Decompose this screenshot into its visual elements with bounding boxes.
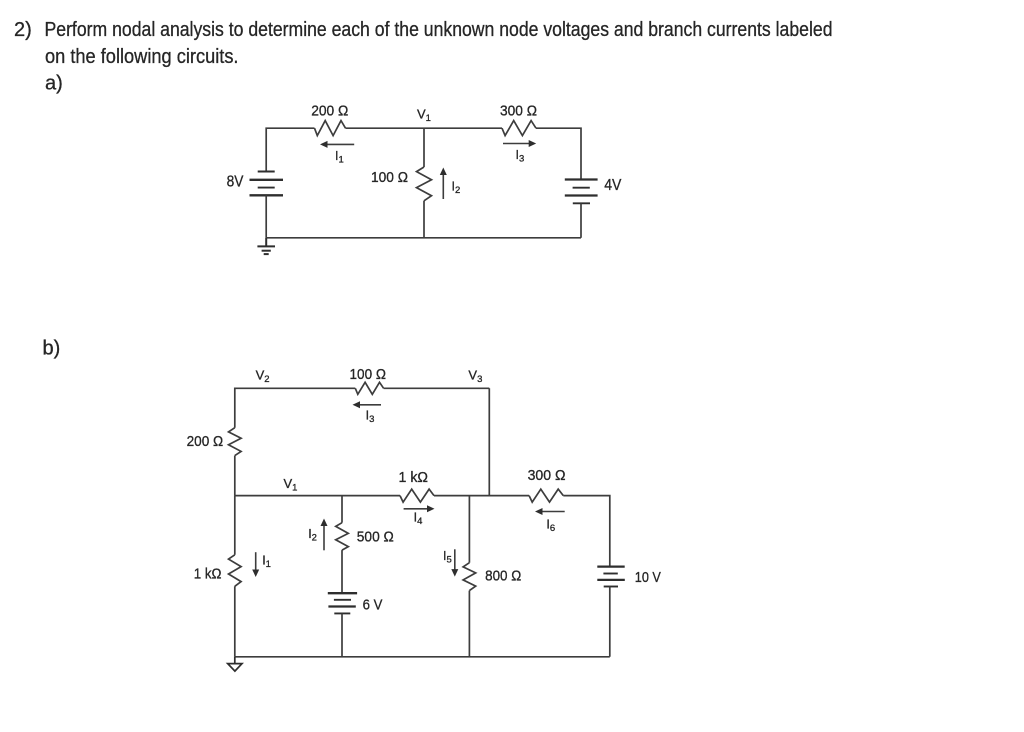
current label I3 (b) bbox=[366, 409, 375, 426]
current label I5 (b) bbox=[443, 549, 452, 566]
svg-text:V2: V2 bbox=[256, 368, 270, 386]
svg-text:V3: V3 bbox=[468, 368, 482, 386]
battery 4V (a) bbox=[565, 180, 598, 204]
svg-text:I2: I2 bbox=[452, 179, 461, 196]
node label V3 bbox=[468, 368, 482, 386]
current label I3 (a) bbox=[516, 148, 525, 165]
current label I2 (a) bbox=[452, 179, 461, 196]
current arrow I3 (b) bbox=[353, 401, 382, 408]
svg-text:200 Ω: 200 Ω bbox=[311, 103, 348, 120]
wire: a top-left segment bbox=[266, 128, 314, 171]
svg-text:200 Ω: 200 Ω bbox=[187, 433, 224, 450]
svg-text:V1: V1 bbox=[284, 476, 298, 494]
wire: 6V battery to bottom rail bbox=[341, 613, 343, 656]
current label I1 (a) bbox=[335, 149, 344, 166]
current arrow I6 (b) bbox=[535, 508, 565, 515]
resistor 500ohm vertical bbox=[336, 523, 349, 550]
current arrow I1 (b) bbox=[252, 552, 259, 577]
svg-text:100 Ω: 100 Ω bbox=[371, 169, 408, 186]
wire: b left lower segment bbox=[234, 496, 236, 555]
label 800 ohm (b) bbox=[485, 568, 521, 585]
svg-text:I3: I3 bbox=[366, 409, 375, 426]
current label I4 (b) bbox=[414, 511, 423, 528]
wire: b bottom rail bbox=[235, 656, 610, 658]
svg-text:I2: I2 bbox=[308, 527, 317, 544]
battery 6V bbox=[328, 593, 357, 613]
svg-text:300 Ω: 300 Ω bbox=[528, 467, 566, 484]
wire: 800ohm branch upper bbox=[468, 496, 470, 563]
svg-text:500 Ω: 500 Ω bbox=[357, 529, 394, 546]
wire: 10V battery to bottom rail bbox=[609, 587, 611, 657]
wire: a top-middle segment bbox=[346, 127, 503, 129]
svg-text:on the following circuits.: on the following circuits. bbox=[45, 46, 239, 68]
current arrow I5 (b) bbox=[451, 549, 458, 576]
wire: V3 vertical bbox=[488, 388, 490, 495]
label 300 ohm (a) bbox=[500, 103, 537, 120]
svg-text:I4: I4 bbox=[414, 511, 423, 528]
svg-text:6 V: 6 V bbox=[363, 597, 383, 614]
svg-text:10 V: 10 V bbox=[635, 569, 661, 586]
label 8V bbox=[227, 173, 244, 190]
svg-text:100 Ω: 100 Ω bbox=[350, 366, 387, 383]
label 200 ohm (a) bbox=[311, 103, 348, 120]
wire: 100ohm bottom to bottom rail bbox=[423, 201, 425, 238]
svg-text:4V: 4V bbox=[604, 177, 622, 194]
svg-text:8V: 8V bbox=[227, 173, 244, 190]
resistor 200ohm (b) vertical bbox=[229, 428, 242, 456]
svg-text:I5: I5 bbox=[443, 549, 452, 566]
node label V1 (a) bbox=[417, 106, 431, 124]
svg-text:800 Ω: 800 Ω bbox=[485, 568, 521, 585]
wire: b left to bottom rail bbox=[234, 586, 236, 657]
label 500 ohm (b) bbox=[357, 529, 394, 546]
wire: b middle rail left bbox=[235, 495, 400, 497]
wire: 500ohm to 6V battery bbox=[341, 550, 343, 593]
label 6 V bbox=[363, 597, 383, 614]
label a) bbox=[45, 73, 63, 95]
resistor 800ohm vertical bbox=[463, 563, 476, 591]
problem statement text bbox=[14, 19, 833, 68]
label 300 ohm (b) bbox=[528, 467, 566, 484]
resistor 300ohm (b) bbox=[529, 489, 563, 502]
svg-text:a): a) bbox=[45, 73, 63, 95]
svg-text:I6: I6 bbox=[546, 518, 555, 535]
svg-text:I1: I1 bbox=[262, 554, 271, 571]
svg-text:300 Ω: 300 Ω bbox=[500, 103, 537, 120]
label 1 kohm (b left) bbox=[194, 566, 222, 583]
wire: b top-left segment bbox=[235, 388, 355, 427]
wire: a top-right segment bbox=[536, 128, 581, 179]
label 1 kohm (b middle) bbox=[399, 469, 429, 486]
ground (a) bbox=[257, 238, 275, 254]
label 100 ohm (a) bbox=[371, 169, 408, 186]
svg-text:2): 2) bbox=[14, 19, 32, 41]
current label I2 (b) bbox=[308, 527, 317, 544]
current label I6 (b) bbox=[546, 518, 555, 535]
wire: b left mid segment bbox=[234, 456, 236, 496]
wire: b middle rail to right vertical bbox=[563, 496, 610, 567]
svg-text:I3: I3 bbox=[516, 148, 525, 165]
wire: a right-bottom segment bbox=[580, 203, 582, 238]
resistor 1kohm (b middle) bbox=[400, 489, 434, 502]
label 100 ohm (b) bbox=[350, 366, 387, 383]
svg-text:1 kΩ: 1 kΩ bbox=[399, 469, 429, 486]
current arrow I4 (b) bbox=[404, 505, 435, 512]
label 200 ohm (b) bbox=[187, 433, 224, 450]
wire: 500ohm branch upper bbox=[341, 496, 343, 523]
resistor 300ohm (a) bbox=[502, 121, 536, 136]
label 10 V bbox=[635, 569, 661, 586]
current label I1 (b) bbox=[262, 554, 271, 571]
battery 10V bbox=[597, 567, 625, 587]
node label V1 (b) bbox=[284, 476, 298, 494]
svg-text:V1: V1 bbox=[417, 106, 431, 124]
current arrow I2 (a) bbox=[440, 168, 447, 200]
current arrow I3 (a) bbox=[503, 140, 536, 147]
node V1 branch wire bbox=[423, 128, 425, 167]
svg-text:Perform nodal analysis to dete: Perform nodal analysis to determine each… bbox=[45, 19, 833, 41]
wire: b top-right segment bbox=[384, 387, 490, 389]
resistor 200ohm (a) bbox=[315, 121, 346, 136]
label b) bbox=[43, 338, 61, 360]
resistor 1kohm (b left) vertical bbox=[229, 555, 242, 587]
ground (b) triangle bbox=[228, 657, 242, 671]
label 4V bbox=[604, 177, 622, 194]
resistor 100ohm (a) vertical bbox=[417, 167, 432, 201]
svg-text:I1: I1 bbox=[335, 149, 344, 166]
wire: a left-bottom segment bbox=[265, 195, 267, 238]
wire: a bottom rail bbox=[266, 237, 581, 239]
wire: b middle rail right bbox=[434, 495, 529, 497]
wire: 800ohm to bottom rail bbox=[468, 591, 470, 657]
node label V2 bbox=[256, 368, 270, 386]
current arrow I1 (a) bbox=[320, 141, 354, 148]
svg-text:b): b) bbox=[43, 338, 61, 360]
svg-text:1 kΩ: 1 kΩ bbox=[194, 566, 222, 583]
current arrow I2 (b) bbox=[321, 519, 328, 551]
resistor 100ohm (b) bbox=[355, 382, 383, 394]
battery 8V (a) bbox=[250, 172, 284, 196]
